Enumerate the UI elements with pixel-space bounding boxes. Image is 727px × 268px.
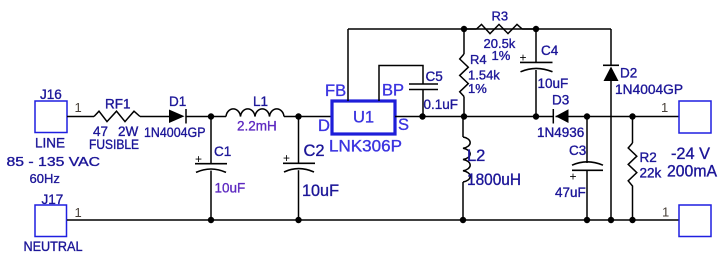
svg-text:1%: 1% xyxy=(492,48,511,63)
svg-text:1: 1 xyxy=(662,205,669,220)
svg-text:1: 1 xyxy=(661,100,668,115)
node at C1 tap xyxy=(208,113,214,119)
connector J17 xyxy=(35,205,67,237)
svg-text:+: + xyxy=(283,151,290,165)
capacitor C2 xyxy=(298,117,300,164)
svg-text:+: + xyxy=(570,170,577,184)
svg-text:10uF: 10uF xyxy=(302,182,339,200)
inductor L2 xyxy=(462,117,464,138)
svg-text:200mA: 200mA xyxy=(667,163,717,181)
svg-text:D2: D2 xyxy=(620,66,637,81)
wire FB up to feedback rail xyxy=(347,29,349,101)
svg-text:RF1: RF1 xyxy=(105,97,131,112)
op IC U1 LNK306P xyxy=(332,101,395,134)
node L2 bottom xyxy=(460,217,466,223)
svg-text:60Hz: 60Hz xyxy=(30,171,60,186)
capacitor C3 xyxy=(586,117,588,164)
feedback top rail xyxy=(348,28,611,30)
svg-text:1N4004GP: 1N4004GP xyxy=(144,125,206,140)
svg-text:1N4936: 1N4936 xyxy=(537,125,584,140)
svg-text:J16: J16 xyxy=(40,87,62,102)
svg-text:1800uH: 1800uH xyxy=(467,171,521,189)
resistor R2 xyxy=(632,117,634,144)
connector J16 xyxy=(35,101,67,133)
wire RF1 to D1 xyxy=(140,116,169,118)
svg-text:2.2mH: 2.2mH xyxy=(237,119,277,134)
svg-text:D: D xyxy=(318,117,330,135)
svg-text:1N4004GP: 1N4004GP xyxy=(615,82,683,97)
capacitor C4 xyxy=(535,29,537,62)
node C2 bottom xyxy=(295,217,301,223)
node R2 bottom xyxy=(629,217,635,223)
svg-text:0.1uF: 0.1uF xyxy=(424,97,459,112)
svg-text:LNK306P: LNK306P xyxy=(329,138,402,156)
svg-text:LINE: LINE xyxy=(35,136,65,151)
bottom return rail xyxy=(67,219,679,221)
svg-text:+: + xyxy=(520,51,527,65)
diode D2 xyxy=(610,29,612,65)
inductor L1 xyxy=(226,109,284,117)
svg-text:C3: C3 xyxy=(569,143,586,158)
resistor RF1 xyxy=(94,111,140,121)
svg-text:R2: R2 xyxy=(640,150,657,165)
svg-text:R4: R4 xyxy=(470,52,487,67)
svg-text:NEUTRAL: NEUTRAL xyxy=(24,239,83,254)
node C4 bottom xyxy=(533,113,539,119)
resistor R4 xyxy=(463,29,465,54)
svg-text:S: S xyxy=(398,116,409,134)
diode D1 xyxy=(169,110,185,124)
svg-text:1: 1 xyxy=(75,205,82,220)
svg-text:C5: C5 xyxy=(426,69,443,84)
wire D1 to L1 xyxy=(186,116,226,118)
output connector top xyxy=(679,101,711,133)
capacitor C1 xyxy=(210,117,212,164)
svg-text:D1: D1 xyxy=(169,94,186,109)
node at C2 tap xyxy=(295,113,301,119)
svg-text:C2: C2 xyxy=(304,142,325,160)
svg-text:C4: C4 xyxy=(541,43,559,58)
svg-text:85 - 135 VAC: 85 - 135 VAC xyxy=(7,154,101,169)
svg-text:FUSIBLE: FUSIBLE xyxy=(89,137,139,152)
wire BP loop to C5 xyxy=(379,66,423,102)
svg-text:1%: 1% xyxy=(468,81,487,96)
svg-text:D3: D3 xyxy=(552,93,569,108)
node R2 top xyxy=(629,113,635,119)
svg-text:FB: FB xyxy=(325,82,346,100)
svg-text:10uF: 10uF xyxy=(538,76,569,91)
svg-text:U1: U1 xyxy=(353,109,374,127)
node C3 bottom xyxy=(584,217,590,223)
wire L1 to U1 D pin xyxy=(284,116,332,118)
output connector bottom xyxy=(679,205,711,237)
node C1 bottom xyxy=(208,217,214,223)
node D2 bottom xyxy=(608,217,614,223)
svg-text:L2: L2 xyxy=(467,147,485,165)
node C5/S xyxy=(419,113,425,119)
resistor R3 xyxy=(464,28,477,30)
svg-text:+: + xyxy=(195,152,202,166)
svg-text:R3: R3 xyxy=(492,9,509,24)
wire J16 to RF1 xyxy=(67,116,94,118)
svg-text:22k: 22k xyxy=(640,166,662,181)
svg-text:47uF: 47uF xyxy=(555,185,586,200)
node R4/L2 xyxy=(461,113,467,119)
svg-text:1: 1 xyxy=(75,100,82,115)
svg-text:10uF: 10uF xyxy=(215,181,246,196)
diode D3 xyxy=(552,109,554,124)
svg-text:-24 V: -24 V xyxy=(671,145,710,163)
svg-text:C1: C1 xyxy=(214,144,231,159)
S rail from U1 to output xyxy=(395,116,553,118)
svg-text:L1: L1 xyxy=(253,94,268,109)
svg-text:J17: J17 xyxy=(42,192,64,207)
node C3 top xyxy=(584,113,590,119)
svg-text:BP: BP xyxy=(382,82,404,100)
capacitor C5 xyxy=(409,83,438,85)
